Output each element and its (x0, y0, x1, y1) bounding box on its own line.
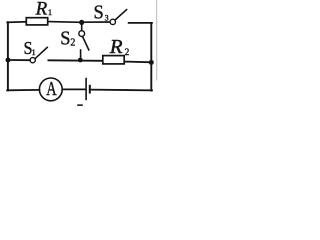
svg-text:R: R (35, 0, 48, 20)
wire: top segment from R1 to S2 node (48, 21, 80, 24)
wire: middle right segment (125, 61, 152, 64)
wire: top right segment (129, 22, 152, 24)
switch S3 (110, 10, 126, 25)
label R1 (35, 0, 53, 20)
resistor R1 (26, 18, 47, 25)
wire: battery to bottom right corner (91, 89, 152, 92)
battery: short plate (negative) (89, 85, 91, 94)
scan artifact: faint page edge line at right (156, 0, 158, 80)
switch S1 (30, 47, 47, 62)
svg-text:R: R (109, 37, 124, 58)
label R2 (109, 37, 130, 58)
label S1 (24, 38, 36, 58)
node: junction of middle wire with right side (149, 60, 154, 65)
wire: bottom left segment (7, 89, 39, 91)
wire: top left segment (7, 21, 26, 24)
svg-text:2: 2 (70, 38, 75, 49)
wire: ammeter to battery (62, 88, 85, 90)
svg-text:2: 2 (125, 47, 130, 57)
svg-text:A: A (46, 77, 57, 100)
svg-text:3: 3 (105, 14, 109, 23)
svg-text:1: 1 (48, 7, 52, 17)
svg-text:1: 1 (32, 48, 36, 57)
ammeter A (39, 77, 62, 101)
resistor R2 (103, 56, 124, 64)
svg-text:S: S (94, 2, 104, 24)
svg-text:S: S (60, 28, 70, 50)
scan artifact: dark mark at bottom edge (77, 104, 83, 106)
wire: left side (7, 22, 9, 90)
wire: right side (150, 23, 152, 91)
node: junction of S2 branch on middle wire (78, 58, 83, 63)
node: junction of middle wire with left side (6, 58, 11, 63)
label S2 (60, 28, 75, 50)
wire: top segment from node to S3 (84, 21, 110, 23)
battery: long plate (positive) (85, 79, 87, 100)
label S3 (94, 2, 109, 24)
node: junction of S2 branch on top wire (79, 20, 84, 25)
wire: middle left segment (8, 59, 30, 61)
wire: middle segment from S1 to R2 (48, 59, 102, 62)
switch S2 (vertical, open) (79, 24, 89, 60)
